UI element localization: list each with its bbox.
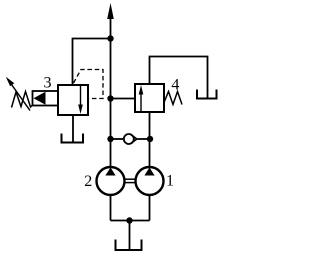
wire: valve U4 top outlet to right tank	[150, 57, 208, 99]
valve U3 pilot actuator box with solid triangle	[33, 91, 59, 106]
node E: suction junction	[126, 217, 132, 223]
tank at right (valve U4 drain)	[197, 90, 217, 99]
pump P2 circle	[97, 167, 125, 195]
valve U3 adjustment arrow	[9, 81, 30, 111]
wire: common suction header	[111, 220, 150, 222]
svg-text:1: 1	[166, 173, 174, 190]
pump P1 outlet triangle	[144, 168, 154, 176]
valve U3 body: unloading valve square envelope	[58, 85, 88, 115]
pump P1 circle	[136, 167, 164, 195]
check valve V1: seat	[130, 134, 137, 144]
tank under valve U3	[62, 134, 84, 143]
valve U3 internal flow arrow (down)	[80, 86, 82, 105]
check valve V1: ball	[124, 134, 134, 144]
pump P2 outlet triangle	[105, 168, 115, 176]
node D: junction right rail / check valve line	[147, 136, 153, 142]
valve U3 spring	[12, 92, 33, 108]
node C: junction left rail / check valve line	[107, 136, 113, 142]
valve U4 body: relief valve square envelope	[135, 84, 164, 112]
wire: valve U4 bottom to right rail	[149, 112, 151, 168]
wire: left rail from top arrow down to pump 2	[110, 11, 112, 168]
wire: pump P2 suction down	[110, 195, 112, 221]
pilot line (dashed) of valve U3: from inlet over to right side	[74, 70, 104, 99]
valve U4 internal flow arrow (up)	[140, 93, 142, 111]
wire: suction pipe into bottom tank	[129, 221, 131, 251]
wire: pump P1 suction down	[149, 195, 151, 221]
node A: junction left rail / branch to valve 3	[107, 35, 113, 41]
valve U4 spring	[164, 92, 182, 105]
wire: branch to valve 3 (horizontal then down)	[73, 39, 111, 86]
svg-text:2: 2	[84, 173, 92, 190]
svg-text:3: 3	[44, 75, 52, 92]
wire: valve U3 drain to tank	[72, 115, 74, 143]
wire: left rail to valve 4 left port	[111, 98, 136, 100]
svg-text:4: 4	[171, 77, 179, 94]
tank at bottom (suction)	[116, 240, 142, 251]
wire: check valve line left segment	[111, 138, 125, 140]
shaft coupling between pumps	[125, 178, 136, 180]
arrow: system outlet at top of left rail	[107, 3, 114, 19]
wire: check valve line right segment	[137, 138, 150, 140]
node B: junction left rail / line to valve 4	[107, 95, 113, 101]
